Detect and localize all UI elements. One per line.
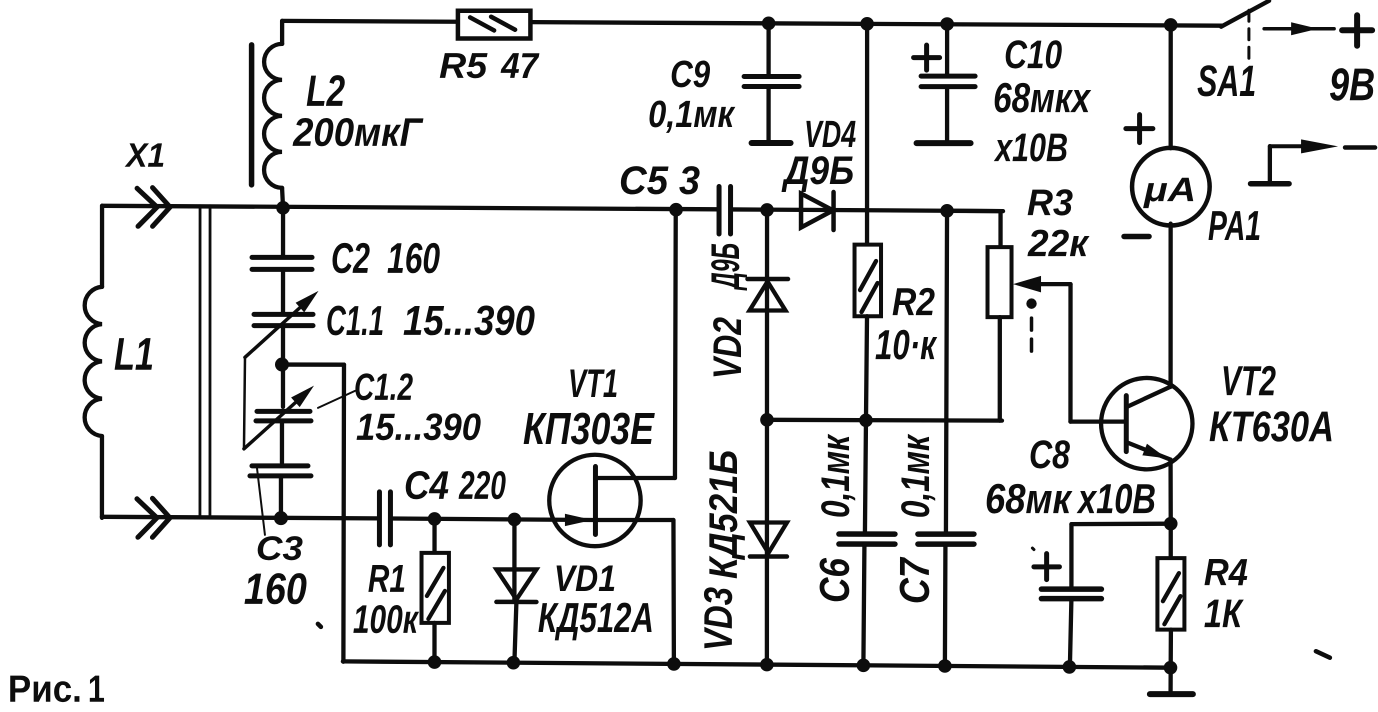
svg-text:10·к: 10·к [875,321,937,368]
svg-text:КП303Е: КП303Е [523,403,656,454]
svg-text:SA1: SA1 [1197,57,1256,106]
svg-text:3: 3 [679,159,700,203]
svg-text:Д9Б: Д9Б [704,243,748,291]
svg-text:22к: 22к [1027,223,1090,265]
svg-text:VD1: VD1 [554,558,616,599]
svg-text:С3: С3 [256,530,303,568]
svg-text:VT2: VT2 [1221,357,1276,404]
svg-text:R4: R4 [1204,552,1248,594]
svg-text:L1: L1 [114,328,154,380]
svg-text:VT1: VT1 [568,362,618,406]
svg-text:68мк: 68мк [985,475,1072,522]
svg-text:С4: С4 [404,464,449,508]
svg-text:R3: R3 [1027,182,1073,223]
svg-text:0,1мк: 0,1мк [894,434,938,518]
svg-text:0,1мк: 0,1мк [648,94,736,136]
svg-text:100к: 100к [353,598,419,642]
svg-text:R1: R1 [368,558,406,601]
svg-text:КТ630А: КТ630А [1209,403,1334,451]
svg-text:R5: R5 [439,45,488,86]
svg-text:15...390: 15...390 [403,297,535,344]
svg-text:VD3: VD3 [697,587,741,651]
svg-text:Рис.: Рис. [8,669,82,711]
svg-text:μА: μА [1143,171,1196,209]
svg-text:С8: С8 [1029,433,1071,477]
svg-text:КД512А: КД512А [538,594,654,641]
svg-text:С10: С10 [1004,33,1062,77]
svg-text:160: 160 [244,565,307,614]
svg-text:С5: С5 [619,159,669,203]
svg-text:С6: С6 [811,558,858,604]
svg-text:Д9Б: Д9Б [781,149,854,193]
svg-text:47: 47 [500,45,540,86]
svg-text:1: 1 [88,669,105,711]
svg-text:С7: С7 [891,557,938,604]
svg-text:220: 220 [458,464,506,508]
svg-text:КД521Б: КД521Б [702,450,746,579]
svg-text:х10В: х10В [1076,475,1156,522]
svg-text:0,1мк: 0,1мк [814,434,858,518]
svg-text:X1: X1 [124,137,165,175]
svg-text:VD2: VD2 [706,317,750,379]
svg-text:С1.2: С1.2 [354,367,413,409]
svg-text:х10В: х10В [994,126,1069,170]
svg-text:160: 160 [387,235,440,283]
svg-text:R2: R2 [892,281,935,324]
svg-text:200мкГ: 200мкГ [292,111,424,155]
svg-text:PA1: PA1 [1208,202,1261,249]
svg-text:9В: 9В [1329,58,1375,110]
svg-text:15...390: 15...390 [356,407,481,449]
svg-text:L2: L2 [306,67,345,116]
svg-text:С1.1: С1.1 [326,297,384,344]
svg-text:1К: 1К [1204,592,1244,636]
svg-text:С9: С9 [670,54,710,96]
svg-text:68мкх: 68мкх [993,74,1091,121]
svg-text:С2: С2 [331,235,370,283]
